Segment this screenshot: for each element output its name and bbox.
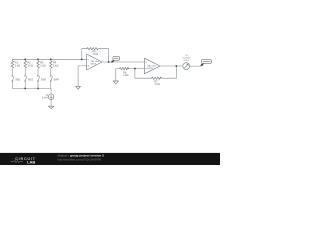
svg-text:http:∕∕circuitlab.com∕c∕752e24: http:∕∕circuitlab.com∕c∕752e24e9946 <box>58 158 102 162</box>
svg-text:1 mA: 1 mA <box>42 96 48 99</box>
svg-text:LM741: LM741 <box>90 64 97 66</box>
svg-text:0.00 V: 0.00 V <box>184 60 190 62</box>
svg-text:LM741: LM741 <box>147 68 154 70</box>
svg-text:SW4: SW4 <box>54 79 60 81</box>
svg-text:SW1: SW1 <box>15 79 21 81</box>
svg-text:1 kΩ: 1 kΩ <box>154 83 159 86</box>
svg-text:LAB: LAB <box>27 160 35 165</box>
svg-text:SW2: SW2 <box>28 79 34 81</box>
svg-text:1 kΩ: 1 kΩ <box>53 63 58 67</box>
svg-text:1 kΩ: 1 kΩ <box>27 63 32 67</box>
svg-text:1 kΩ: 1 kΩ <box>15 63 20 67</box>
svg-text:SW3: SW3 <box>41 79 47 81</box>
svg-text:1 kΩ: 1 kΩ <box>123 74 128 77</box>
svg-text:1 kΩ: 1 kΩ <box>40 63 45 67</box>
svg-text:1 kΩ: 1 kΩ <box>93 53 98 56</box>
